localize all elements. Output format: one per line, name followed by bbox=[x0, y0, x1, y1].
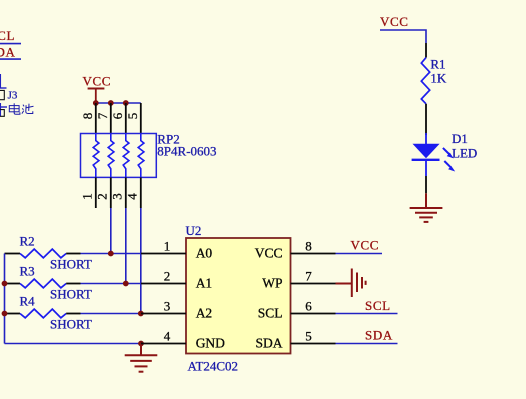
svg-text:GND: GND bbox=[196, 336, 225, 351]
junction R4/wire4 bbox=[138, 311, 144, 317]
svg-text:SCL: SCL bbox=[0, 28, 15, 43]
wire RP2 pin4 down to row A2 bbox=[140, 208, 142, 314]
wire VCC horizontal to RP2 pins bbox=[96, 102, 141, 104]
element R (pin8-1) bbox=[93, 134, 99, 178]
element R (pin7-2) bbox=[108, 134, 114, 178]
cathode bar bbox=[412, 159, 440, 161]
light arrow 2 bbox=[444, 161, 451, 168]
svg-text:7: 7 bbox=[305, 269, 312, 284]
ground symbol below D1 bbox=[410, 193, 443, 222]
ground symbol at U2 GND bbox=[125, 344, 158, 372]
junction left bus / R3 bbox=[2, 281, 8, 287]
pin 4 stub bbox=[140, 177, 142, 208]
svg-text:8: 8 bbox=[305, 239, 312, 254]
svg-text:R1: R1 bbox=[430, 57, 445, 72]
svg-text:SHORT: SHORT bbox=[50, 286, 92, 301]
wire left bus vertical bbox=[4, 254, 6, 344]
wire RP2 pin3 down to row A1 bbox=[125, 208, 127, 284]
pin 1 stub bbox=[95, 177, 97, 208]
svg-text:5: 5 bbox=[125, 113, 140, 120]
body box bbox=[81, 134, 157, 178]
resistor R3 bbox=[5, 264, 92, 302]
IC U2 AT24C02 bbox=[141, 223, 336, 374]
wire J3 pin1 edge bbox=[0, 74, 7, 88]
wire D1 to ground bbox=[425, 176, 427, 193]
svg-text:7: 7 bbox=[95, 112, 110, 119]
LED D1 bbox=[412, 131, 478, 176]
junction R2/wire2 bbox=[108, 251, 114, 257]
pin 4 stub bbox=[141, 343, 186, 345]
pin 7 stub bbox=[110, 103, 112, 134]
light arrow 1 bbox=[443, 148, 450, 155]
junction at RP2 pin 8 bbox=[93, 100, 99, 106]
svg-text:3: 3 bbox=[109, 193, 124, 200]
element R (pin6-3) bbox=[123, 134, 129, 178]
anode triangle bbox=[413, 144, 440, 158]
svg-text:LED: LED bbox=[452, 146, 477, 161]
body bbox=[186, 238, 291, 354]
wire U2 pin5 SDA bbox=[336, 343, 398, 345]
svg-text:SHORT: SHORT bbox=[50, 256, 92, 271]
power ground at WP (rotated bars) bbox=[336, 269, 366, 298]
pin 7 stub bbox=[291, 283, 336, 285]
wire RP2 pin2 down to row A0 bbox=[110, 208, 112, 254]
wire R4 to U2 pin3 bbox=[81, 313, 142, 315]
svg-text:WP: WP bbox=[262, 276, 282, 291]
junction R3/wire3 bbox=[123, 281, 129, 287]
svg-text:6: 6 bbox=[305, 299, 312, 314]
pin 3 stub bbox=[141, 313, 186, 315]
svg-text:4: 4 bbox=[124, 193, 139, 200]
wire U2 pin6 SCL bbox=[336, 313, 398, 315]
junction left bus / R4 bbox=[2, 311, 8, 317]
pin 8 stub bbox=[291, 253, 336, 255]
connector J3 body pin1 notch bbox=[0, 90, 4, 99]
svg-text:SCL: SCL bbox=[258, 306, 283, 321]
wire bottom to U2 GND pin bbox=[5, 343, 142, 345]
svg-text:R4: R4 bbox=[20, 294, 36, 309]
wire R2 to U2 pin1 bbox=[81, 253, 142, 255]
pin 3 stub bbox=[125, 177, 127, 208]
svg-text:SHORT: SHORT bbox=[50, 316, 92, 331]
pin 5 stub bbox=[291, 343, 336, 345]
svg-text:5: 5 bbox=[305, 329, 312, 344]
svg-text:AT24C02: AT24C02 bbox=[188, 359, 239, 374]
junction at RP2 pin 6 bbox=[123, 100, 129, 106]
wire SDA stub top-left bbox=[0, 58, 21, 60]
pin 5 stub bbox=[140, 103, 142, 134]
connector J3 comment 电池 (hand drawn glyphs) bbox=[9, 103, 33, 114]
pin 8 stub bbox=[95, 103, 97, 134]
junction GND wire / ground bbox=[138, 341, 144, 347]
svg-text:J3: J3 bbox=[8, 89, 18, 101]
svg-text:1: 1 bbox=[79, 193, 94, 200]
svg-text:VCC: VCC bbox=[351, 238, 380, 253]
power port VCC (above RP2) bbox=[83, 74, 112, 104]
resistor R2 bbox=[5, 234, 92, 272]
wire R1 to D1 bbox=[425, 104, 427, 135]
junction at RP2 pin 7 bbox=[108, 100, 114, 106]
svg-text:VCC: VCC bbox=[83, 74, 112, 89]
wire R3 to U2 pin2 bbox=[81, 283, 142, 285]
svg-text:A2: A2 bbox=[196, 306, 213, 321]
wire U2 pin8 VCC bbox=[336, 253, 383, 255]
svg-text:U2: U2 bbox=[186, 223, 202, 238]
svg-text:2: 2 bbox=[164, 269, 171, 284]
pin 6 stub bbox=[291, 313, 336, 315]
pin 2 stub bbox=[110, 177, 112, 208]
svg-text:6: 6 bbox=[110, 112, 125, 119]
svg-text:A1: A1 bbox=[196, 276, 213, 291]
svg-text:8P4R-0603: 8P4R-0603 bbox=[157, 144, 216, 159]
element R (pin5-4) bbox=[138, 134, 144, 178]
svg-text:SDA: SDA bbox=[365, 328, 393, 343]
wire VCC top right bbox=[380, 30, 426, 43]
svg-text:2: 2 bbox=[94, 193, 109, 200]
pin 2 stub bbox=[141, 283, 186, 285]
resistor pack RP2 bbox=[79, 103, 216, 208]
svg-text:1: 1 bbox=[164, 239, 171, 254]
wire SCL stub top-left bbox=[0, 43, 21, 45]
svg-text:SDA: SDA bbox=[255, 336, 282, 351]
wire J3 pin2 edge bbox=[0, 103, 7, 117]
resistor R1 bbox=[421, 43, 447, 104]
svg-text:D1: D1 bbox=[452, 131, 468, 146]
svg-text:VCC: VCC bbox=[380, 14, 409, 29]
connector J3 body pin2 notch bbox=[0, 110, 4, 117]
svg-text:3: 3 bbox=[164, 299, 171, 314]
svg-text:1K: 1K bbox=[430, 71, 447, 86]
resistor R4 bbox=[5, 294, 92, 332]
svg-text:VCC: VCC bbox=[255, 246, 283, 261]
svg-text:A0: A0 bbox=[196, 246, 213, 261]
svg-text:SDA: SDA bbox=[0, 44, 16, 59]
svg-text:8: 8 bbox=[80, 113, 95, 120]
svg-text:R2: R2 bbox=[20, 234, 35, 249]
svg-text:R3: R3 bbox=[20, 264, 35, 279]
pin 1 stub bbox=[141, 253, 186, 255]
pin 6 stub bbox=[125, 103, 127, 134]
svg-text:SCL: SCL bbox=[365, 298, 391, 313]
svg-text:4: 4 bbox=[164, 329, 171, 344]
